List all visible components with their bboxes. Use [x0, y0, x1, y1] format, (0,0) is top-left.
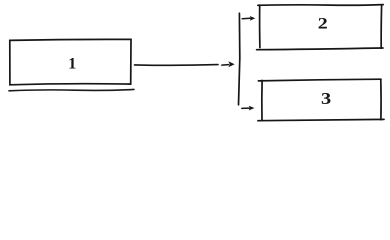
- svg-text:3: 3: [321, 90, 331, 109]
- underline below box 1: [9, 89, 134, 90]
- arrow to box 3: [242, 107, 250, 109]
- svg-text:2: 2: [318, 14, 328, 32]
- block box 3: [258, 79, 384, 121]
- arrow to box 2: [242, 17, 250, 19]
- junction vertical line: [239, 13, 240, 105]
- svg-text:1: 1: [68, 55, 76, 72]
- block box 2: [257, 5, 384, 50]
- block box 1: [10, 39, 131, 84]
- arrow into junction: [222, 64, 229, 67]
- wire from box 1: [135, 64, 219, 67]
